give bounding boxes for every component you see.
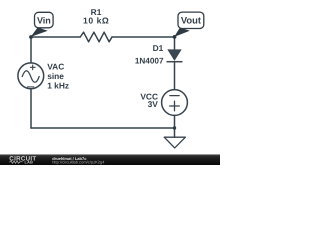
Vin label callout tail [31,28,48,37]
diode D1 cathode bar [167,61,183,63]
wire VAC bottom down to corner [30,89,32,128]
svg-text:3V: 3V [148,99,159,109]
svg-text:LAB: LAB [25,160,34,164]
node A junction dot [29,35,33,39]
diode D1 [167,49,181,61]
wire VCC bottom to junction [174,115,176,128]
svg-text:1 kHz: 1 kHz [47,81,69,91]
Vout label box [178,12,204,28]
ground symbol [164,137,185,148]
wire resistor to node Vout [112,36,175,38]
svg-text:http://circuitlab.com/c/pzK2g4: http://circuitlab.com/c/pzK2g4 [52,159,105,164]
Vout label callout tail [174,28,190,37]
source V1 VAC circle [18,63,44,89]
svg-text:Vout: Vout [181,15,201,26]
svg-text:VAC: VAC [47,61,64,71]
svg-text:sine: sine [47,71,64,81]
wire Vout node down to diode anode [174,37,176,49]
Vin label box [35,12,54,27]
footer logo resistor zigzag [10,161,23,163]
wire diode cathode down to VCC top [174,62,176,90]
plus sign inside V2 [170,101,180,111]
node Vout junction dot [173,35,177,39]
resistor R1 [80,32,112,42]
sine wave inside V1 [22,71,39,83]
wire top left: node A to resistor [31,36,80,38]
wire bottom horizontal [31,127,175,129]
plus sign inside V1 [30,65,35,70]
footer bar [0,154,220,165]
wire junction to ground stub [174,128,176,137]
source V2 VCC circle [162,90,188,116]
svg-text:10 kΩ: 10 kΩ [83,16,109,26]
svg-text:1N4007: 1N4007 [135,57,164,66]
bottom junction dot [173,126,176,129]
minus sign inside V1 [27,86,33,88]
minus sign inside V2 [170,95,179,97]
svg-text:D1: D1 [153,43,164,53]
wire node A down to VAC top [30,37,32,63]
svg-text:Vin: Vin [37,15,51,25]
